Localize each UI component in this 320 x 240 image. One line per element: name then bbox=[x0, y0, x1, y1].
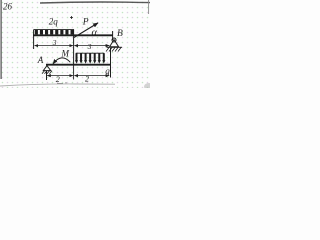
svg-text:α: α bbox=[92, 28, 98, 39]
svg-text:B: B bbox=[117, 29, 123, 39]
svg-text:3: 3 bbox=[52, 38, 57, 47]
svg-text:26: 26 bbox=[3, 2, 13, 12]
svg-text:2q: 2q bbox=[49, 16, 59, 26]
svg-text:A: A bbox=[37, 55, 44, 65]
svg-text:3: 3 bbox=[87, 42, 92, 51]
svg-text:2: 2 bbox=[85, 75, 89, 84]
svg-text:2: 2 bbox=[56, 75, 60, 84]
svg-text:q: q bbox=[105, 66, 110, 76]
svg-text:M: M bbox=[61, 49, 70, 59]
svg-text:P: P bbox=[82, 17, 89, 27]
